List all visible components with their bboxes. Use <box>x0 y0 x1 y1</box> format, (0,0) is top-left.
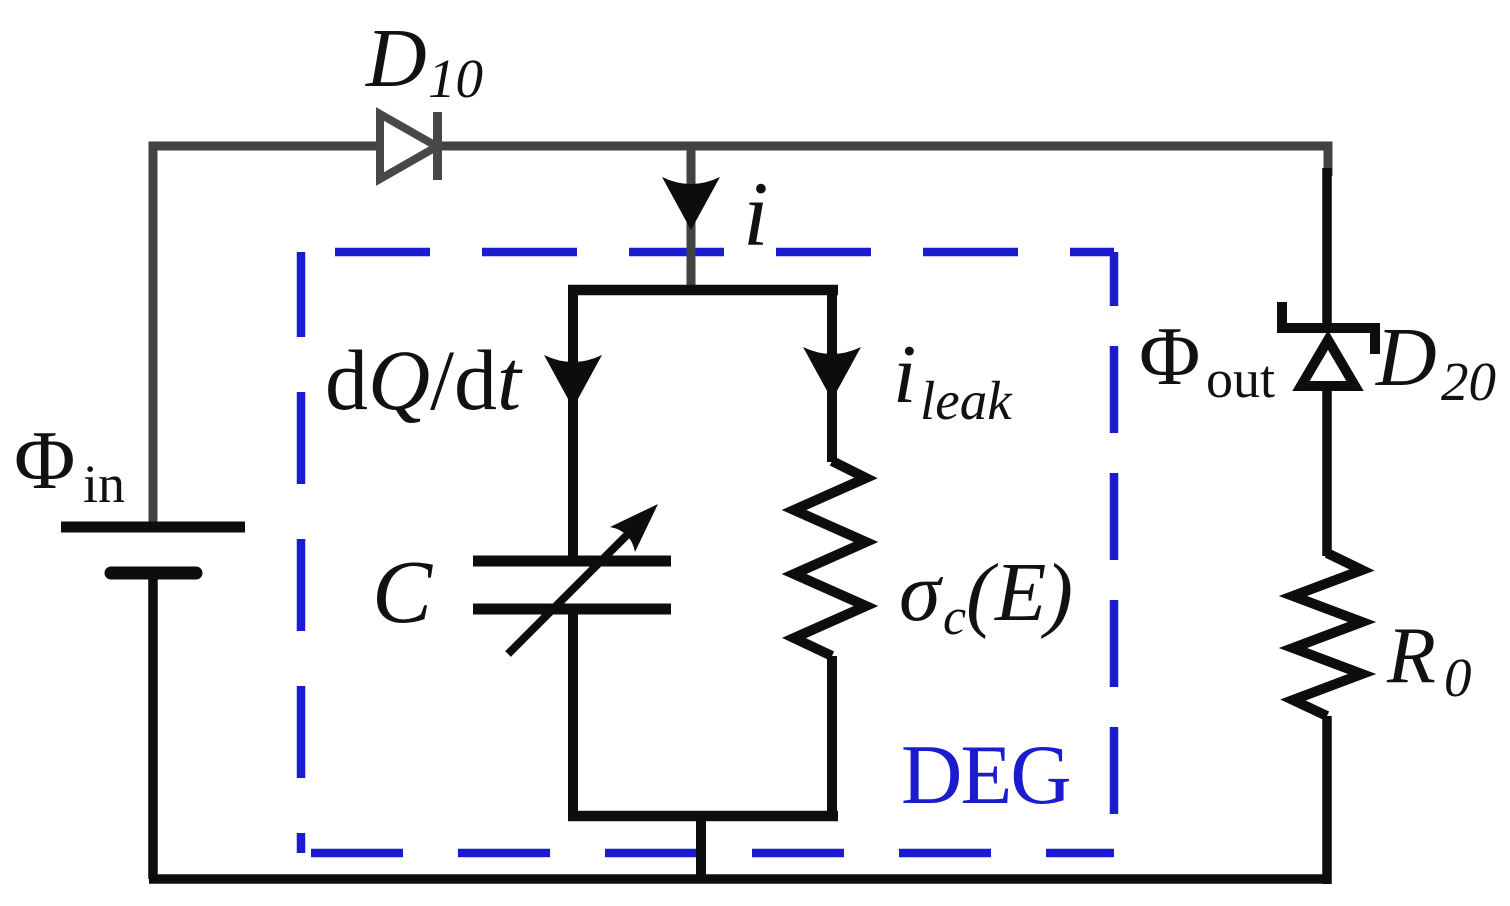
svg-text:R: R <box>1386 612 1436 700</box>
svg-text:out: out <box>1206 349 1275 409</box>
svg-text:10: 10 <box>428 48 483 109</box>
wire: capacitor branch lower <box>568 609 578 821</box>
svg-text:0: 0 <box>1444 647 1472 708</box>
svg-text:c: c <box>943 589 966 646</box>
inner node bar (bottom of branches) <box>568 811 838 822</box>
wire: gray input loop (top wire with left drop to battery) <box>153 146 1328 528</box>
resistor R0 zigzag <box>1293 553 1362 716</box>
wire: capacitor branch upper <box>568 290 578 561</box>
svg-text:20: 20 <box>1441 351 1496 412</box>
arrow i_leak <box>803 347 861 400</box>
svg-text:Φ: Φ <box>14 414 75 507</box>
svg-text:in: in <box>83 454 125 514</box>
svg-text:D: D <box>1375 311 1437 404</box>
capacitor variable arrow head <box>610 504 658 552</box>
svg-text:): ) <box>1041 547 1073 640</box>
arrow dQ/dt <box>544 355 602 408</box>
svg-text:D: D <box>365 12 427 105</box>
arrow i (current into DEG) <box>662 177 720 230</box>
capacitor C bottom plate <box>473 604 671 615</box>
battery bottom plate (-) <box>111 567 196 580</box>
wire: black left/bottom return <box>149 573 1331 879</box>
wire: R0 to bottom <box>1322 716 1332 884</box>
svg-text:dQ/dt: dQ/dt <box>325 332 523 428</box>
zener diode D20 cathode bar with hooks <box>1282 302 1375 354</box>
DEG dashed boundary box <box>301 248 1114 257</box>
svg-text:i: i <box>893 328 916 421</box>
svg-text:σ: σ <box>899 546 944 639</box>
wire: black right branch upper (to zener) <box>1322 168 1332 328</box>
svg-text:DEG: DEG <box>901 728 1070 822</box>
wire: leakage branch upper <box>827 290 837 462</box>
wire: gray stub from top wire down to node A <box>687 146 696 290</box>
zener diode D20 triangle <box>1301 340 1355 386</box>
wire: center tail to bottom wire <box>696 816 706 883</box>
svg-text:leak: leak <box>920 370 1013 431</box>
svg-text:i: i <box>743 163 769 265</box>
diode D10 cathode bar <box>433 112 442 180</box>
capacitor C top plate <box>473 556 671 567</box>
inner node bar (top of C / sigma branches) <box>568 285 838 296</box>
wire: zener to resistor R0 <box>1322 390 1332 556</box>
wire: leakage branch lower <box>827 656 837 821</box>
svg-text:E: E <box>994 546 1046 639</box>
svg-text:C: C <box>372 543 433 642</box>
battery top plate (+) <box>61 522 245 533</box>
svg-text:Φ: Φ <box>1139 310 1200 403</box>
capacitor variable arrow shaft <box>508 525 637 654</box>
resistor sigma_c(E) zigzag <box>794 461 866 656</box>
diode D10 triangle <box>380 114 437 179</box>
